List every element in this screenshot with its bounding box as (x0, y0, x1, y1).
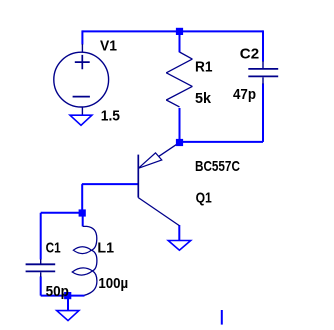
capacitor C1 bottom pin (40, 272, 42, 277)
inductor L1 body (83, 226, 97, 295)
wire R1 bottom pin (179, 108, 181, 142)
ground bottom left (57, 311, 79, 321)
svg-text:47p: 47p (233, 87, 256, 103)
wire node to L1 bottom (68, 295, 85, 297)
capacitor C2 plates (248, 69, 278, 77)
capacitor C1 top pin (40, 259, 42, 264)
wire collector to ground (178, 225, 180, 240)
svg-text:Q1: Q1 (196, 190, 212, 206)
transistor Q1 emitter line (159, 142, 180, 156)
wire R1 top pin (179, 31, 181, 52)
svg-text:5k: 5k (195, 91, 212, 107)
inductor L1 loop 2 (72, 268, 92, 275)
ground below collector (168, 241, 191, 251)
svg-text:1.5: 1.5 (101, 108, 120, 124)
wire V1 top drop (81, 30, 83, 44)
wire node left (41, 212, 82, 214)
wire C2 bottom to node (180, 141, 264, 143)
inductor L1 loop 1 (73, 247, 91, 254)
node junction emitter (176, 139, 183, 146)
V1 minus sign (73, 96, 90, 98)
ground below V1 (70, 115, 92, 125)
cursor mark (221, 310, 223, 325)
svg-text:100µ: 100µ (98, 276, 128, 292)
svg-text:L1: L1 (97, 241, 114, 257)
capacitor C2 bottom pin (262, 77, 264, 84)
transistor Q1 base bar (137, 155, 139, 198)
transistor Q1 emitter arrow (138, 153, 162, 168)
svg-text:R1: R1 (195, 60, 213, 76)
svg-text:V1: V1 (100, 38, 117, 54)
transistor Q1 collector line (138, 198, 179, 226)
wire top net V1 to C2 (82, 30, 263, 32)
svg-text:BC557C: BC557C (195, 159, 240, 175)
capacitor C2 top pin (262, 61, 264, 68)
node junction tank bottom (64, 292, 71, 299)
V1 bottom pin (81, 107, 83, 115)
capacitor C1 plates (26, 264, 56, 271)
V1 top pin (81, 44, 83, 52)
wire C2 bottom (262, 84, 264, 142)
wire C2 top drop (262, 30, 264, 61)
wire base down to node (81, 184, 83, 213)
svg-text:C1: C1 (46, 241, 61, 257)
node junction tank top (79, 209, 86, 216)
wire C1 to node (41, 295, 68, 297)
voltage source V1 circle (54, 52, 109, 107)
wire ground pin below bottom node (67, 298, 69, 310)
wire C1 bottom (40, 277, 42, 296)
resistor R1 zigzag (166, 52, 192, 107)
node junction top (176, 28, 183, 35)
svg-text:C2: C2 (240, 47, 259, 63)
V1 plus sign (75, 55, 90, 69)
wire down to C1 (40, 213, 42, 260)
wire L1 top pin (82, 214, 84, 226)
wire base of Q1 (82, 183, 138, 185)
svg-text:50p: 50p (46, 284, 69, 300)
